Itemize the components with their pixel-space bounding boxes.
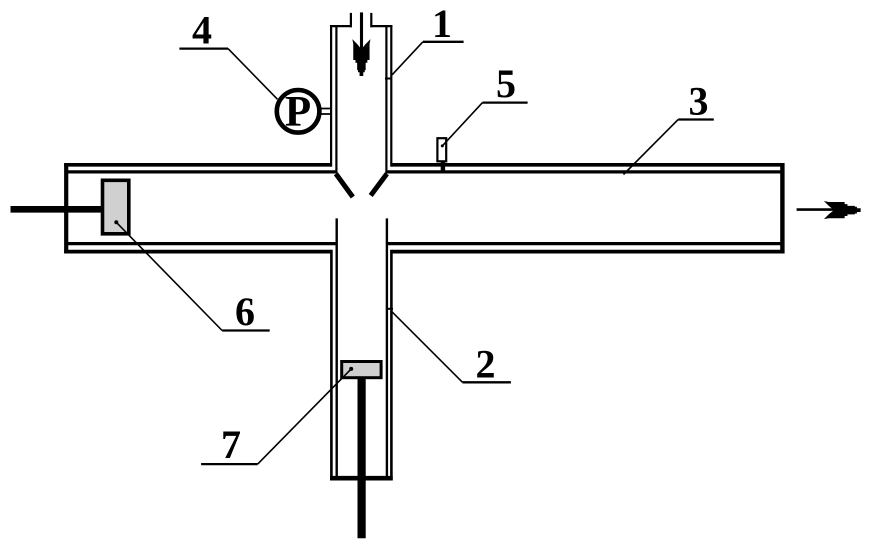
svg-text:3: 3 xyxy=(689,78,709,123)
svg-text:1: 1 xyxy=(432,1,452,46)
svg-text:4: 4 xyxy=(192,8,212,53)
svg-text:5: 5 xyxy=(496,61,516,106)
svg-text:2: 2 xyxy=(476,342,496,387)
svg-text:7: 7 xyxy=(221,422,241,467)
svg-text:P: P xyxy=(285,89,311,136)
svg-text:6: 6 xyxy=(235,289,255,334)
